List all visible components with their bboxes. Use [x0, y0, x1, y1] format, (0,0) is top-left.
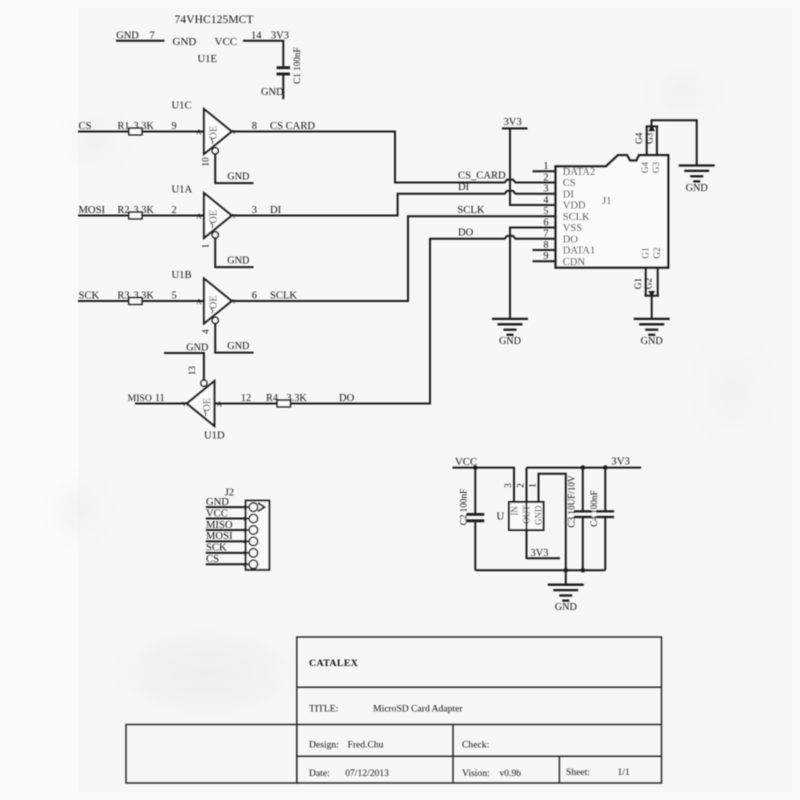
wire OE pin 1 to GND — [215, 238, 253, 267]
pin 5 of J2 (SCK) — [206, 543, 258, 558]
node SCK — [79, 290, 100, 301]
wire GND pin 7 — [116, 40, 165, 42]
svg-text:DO: DO — [563, 234, 579, 245]
pin 4 of J1 (VDD) — [543, 195, 586, 212]
ground (J1 bottom case) — [634, 319, 670, 347]
svg-text:DO: DO — [339, 393, 355, 404]
svg-text:3V3: 3V3 — [531, 548, 549, 559]
svg-text:G1: G1 — [641, 247, 651, 259]
svg-text:Check:: Check: — [462, 740, 489, 751]
pin 2 of J2 (VCC) — [206, 508, 258, 523]
svg-text:G3: G3 — [646, 132, 656, 144]
pin 11 (output U1D) — [155, 393, 165, 404]
pin 12 (input U1D) — [241, 393, 251, 404]
IC title 74VHC125MCT — [175, 14, 254, 26]
pin 9 (input U1C) — [172, 121, 177, 132]
junction VCC/C2 — [473, 465, 478, 470]
svg-text:CATALEX: CATALEX — [309, 658, 358, 669]
junction bus/C3 — [581, 568, 586, 573]
pin 6 (output U1B) — [252, 290, 257, 301]
svg-text:VCC: VCC — [215, 36, 238, 48]
svg-text:U1A: U1A — [172, 184, 193, 195]
title block date row — [309, 767, 630, 779]
wire MOSI input — [78, 215, 204, 217]
pin 9 of J1 (CDN) — [543, 251, 585, 268]
wire OE pin 4 to GND — [215, 324, 253, 353]
resistor R1 — [118, 121, 155, 135]
svg-text:DATA2: DATA2 — [563, 167, 595, 178]
svg-text:6: 6 — [252, 290, 257, 301]
pin 5 (input U1B) — [172, 290, 177, 301]
svg-text:Date:: Date: — [309, 768, 330, 779]
resistor R3 — [118, 290, 155, 304]
svg-text:GND: GND — [227, 256, 249, 267]
wire MISO output — [135, 403, 187, 405]
ground (VSS) — [492, 319, 528, 347]
svg-text:SCLK: SCLK — [563, 212, 590, 223]
net label GND (C1) — [261, 87, 284, 98]
svg-text:3: 3 — [504, 483, 514, 488]
junction rail/C3 — [581, 465, 586, 470]
svg-text:G3: G3 — [652, 161, 662, 173]
resistor R2 — [118, 205, 155, 219]
capacitor C1 100nF — [277, 47, 302, 84]
capacitor C4 100nF — [589, 468, 614, 571]
J2 pin 1 chevron — [258, 503, 265, 511]
svg-text:C3 10UF/10V: C3 10UF/10V — [567, 475, 577, 528]
pin 3 of J2 (MISO) — [206, 520, 258, 535]
title block frame — [126, 637, 662, 783]
buffer U1D — [182, 381, 225, 441]
svg-text:C4 100nF: C4 100nF — [589, 490, 599, 527]
svg-text:Fred.Chu: Fred.Chu — [348, 740, 384, 751]
title block design row — [309, 740, 489, 751]
net label 3V3 (pin 14) — [271, 30, 289, 41]
pin 6 of J2 (CS) — [206, 554, 258, 569]
svg-text:G2: G2 — [653, 247, 663, 259]
wire VCC pin 14 to C1 — [243, 41, 283, 66]
pin 1 of J2 (GND) — [206, 497, 258, 512]
wire 3V3 rail — [527, 467, 642, 469]
svg-text:DI: DI — [270, 205, 282, 216]
buffer U1C — [172, 100, 237, 154]
svg-text:R3: R3 — [118, 290, 130, 301]
pin 4 of J2 (MOSI) — [206, 531, 258, 546]
svg-text:CDN: CDN — [563, 257, 586, 268]
svg-text:U1D: U1D — [204, 431, 225, 442]
svg-text:G4: G4 — [635, 132, 645, 144]
svg-text:3V3: 3V3 — [504, 117, 522, 128]
OE bubble pin 13 of U1D — [188, 366, 207, 387]
svg-text:U1E: U1E — [198, 54, 217, 65]
J1 bottom case pins G1 G2 — [634, 268, 659, 298]
svg-text:VDD: VDD — [563, 201, 586, 212]
svg-text:9: 9 — [172, 121, 177, 132]
net label 3V3 (regulator out) — [531, 548, 549, 559]
svg-text:1: 1 — [528, 483, 538, 488]
wire G4/G3 to GND — [652, 120, 697, 165]
stub wire J1 pin 1 — [533, 170, 556, 172]
net label DI — [458, 182, 470, 193]
wire CS input — [78, 131, 204, 133]
svg-text:G1: G1 — [634, 277, 644, 289]
net label 3V3 (rail) — [611, 456, 630, 468]
OE bubble pin 10 of U1C — [202, 148, 219, 167]
node SCLK — [270, 290, 297, 301]
pin 8 of J1 (DATA1) — [543, 240, 595, 257]
pin 1 of J1 (DATA2) — [543, 161, 595, 178]
J1 top case pins G4 G3 — [635, 125, 658, 155]
pin 3 (output U1A) — [252, 205, 257, 216]
connector J2 label — [225, 487, 234, 498]
svg-text:GND: GND — [227, 172, 249, 183]
svg-text:14: 14 — [251, 30, 262, 41]
net label GND (pin 7) — [116, 30, 139, 41]
svg-text:GND: GND — [227, 341, 249, 352]
wire DO to J1 pin 7 — [290, 236, 555, 404]
wire ground bus — [475, 569, 605, 571]
svg-text:R1: R1 — [118, 121, 130, 132]
wire SCK input — [78, 300, 204, 302]
svg-text:CS: CS — [563, 178, 576, 189]
svg-text:DO: DO — [458, 227, 474, 238]
buffer U1A — [172, 184, 237, 238]
ground (regulator) — [548, 585, 584, 613]
svg-text:VSS: VSS — [563, 223, 582, 234]
capacitor C2 100nF — [458, 468, 484, 571]
connector J1 microSD socket body — [556, 155, 669, 267]
title block title row — [309, 704, 463, 715]
svg-text:07/12/2013: 07/12/2013 — [345, 768, 389, 779]
wire 3V3 to J1 pin 4 (VDD) — [510, 128, 556, 205]
J1 case pins G4 G3 labels inside — [641, 161, 662, 173]
svg-text:11: 11 — [155, 393, 165, 404]
svg-text:C2 100nF: C2 100nF — [458, 489, 468, 526]
svg-text:SCLK: SCLK — [270, 290, 297, 301]
power VCC — [455, 456, 477, 468]
svg-text:6: 6 — [543, 217, 548, 228]
svg-text:3V3: 3V3 — [271, 30, 289, 41]
wire OE pin 10 to GND — [215, 154, 253, 183]
svg-text:OE: OE — [209, 126, 220, 139]
svg-text:2: 2 — [243, 516, 246, 523]
U1E VCC pin name — [215, 36, 238, 48]
svg-text:TITLE:: TITLE: — [309, 704, 338, 715]
title block company CATALEX — [309, 658, 358, 669]
U1E label — [198, 54, 217, 65]
svg-text:GND: GND — [686, 183, 708, 194]
svg-text:5: 5 — [172, 290, 177, 301]
node MOSI — [79, 205, 106, 216]
svg-text:GND: GND — [186, 342, 208, 353]
svg-text:CS: CS — [79, 121, 92, 132]
svg-text:GND: GND — [555, 602, 577, 613]
svg-text:U1B: U1B — [172, 270, 192, 281]
net label CS_CARD — [458, 170, 506, 181]
pin 7 of U1E — [150, 30, 155, 41]
svg-text:SCK: SCK — [79, 290, 100, 301]
OE bubble pin 1 of U1A — [202, 232, 219, 249]
svg-text:R4: R4 — [266, 393, 278, 404]
pin 8 (output U1C) — [252, 121, 257, 132]
svg-text:Design:: Design: — [309, 740, 339, 751]
svg-text:4: 4 — [543, 195, 548, 206]
net label GND (U1B OE) — [227, 341, 249, 352]
node CS — [79, 121, 92, 132]
svg-text:GND: GND — [116, 30, 139, 41]
svg-text:7: 7 — [150, 30, 155, 41]
svg-text:8: 8 — [252, 121, 257, 132]
wire C1 to GND — [282, 75, 284, 99]
stub wire J1 pin 9 — [533, 260, 556, 262]
svg-text:MicroSD Card Adapter: MicroSD Card Adapter — [373, 704, 463, 715]
svg-text:MISO: MISO — [128, 393, 152, 404]
svg-text:13: 13 — [188, 366, 198, 376]
svg-text:CS_CARD: CS_CARD — [458, 170, 506, 181]
svg-text:GND: GND — [641, 336, 663, 347]
svg-text:MOSI: MOSI — [79, 205, 106, 216]
wire OE pin 13 to GND — [164, 353, 204, 380]
wire J1 pin 6 (VSS) to GND — [510, 228, 556, 319]
svg-text:2: 2 — [516, 483, 526, 488]
ground (J1 top case) — [679, 166, 715, 194]
svg-text:v0.9b: v0.9b — [500, 768, 522, 779]
wire SCLK to J1 pin 5 — [232, 216, 556, 301]
pin 14 of U1E — [251, 30, 262, 41]
svg-text:R2: R2 — [118, 205, 130, 216]
wire regulator OUT (pin 2) to 3V3 — [527, 468, 561, 559]
svg-text:GND: GND — [173, 36, 197, 48]
pin 2 (input U1A) — [172, 205, 177, 216]
buffer U1B — [172, 270, 237, 324]
svg-text:3: 3 — [543, 184, 548, 195]
svg-text:OE: OE — [209, 296, 220, 309]
junction bus/regulator gnd — [564, 568, 569, 573]
U1E GND pin name — [173, 36, 197, 48]
regulator U (3V3 LDO) — [497, 483, 544, 530]
stub wire J1 pin 8 — [533, 249, 556, 251]
svg-text:OE: OE — [202, 398, 213, 411]
svg-text:7: 7 — [543, 229, 548, 240]
svg-text:GND: GND — [499, 336, 521, 347]
svg-text:SCLK: SCLK — [457, 205, 484, 216]
node MISO — [128, 393, 152, 404]
svg-text:J1: J1 — [602, 196, 611, 207]
svg-text:DATA1: DATA1 — [563, 246, 595, 257]
svg-text:1/1: 1/1 — [618, 767, 630, 778]
wire VCC rail — [453, 468, 515, 502]
wire DI to J1 pin 3 — [232, 191, 556, 216]
wire ground stem — [565, 570, 567, 584]
svg-text:IN: IN — [510, 506, 520, 516]
wire regulator GND (pin 1) to ground — [539, 474, 566, 571]
resistor R4 — [266, 393, 307, 407]
svg-text:A: A — [196, 297, 202, 306]
svg-text:GND: GND — [261, 87, 284, 98]
svg-text:DI: DI — [563, 189, 575, 200]
pin 7 of J1 (DO) — [543, 229, 578, 246]
power 3V3 (J1) — [502, 117, 528, 128]
svg-text:10: 10 — [202, 157, 212, 167]
svg-text:A: A — [196, 212, 202, 221]
svg-text:2: 2 — [172, 205, 177, 216]
svg-text:DI: DI — [458, 182, 470, 193]
svg-text:12: 12 — [241, 393, 251, 404]
pin 3 of J1 (DI) — [543, 184, 574, 201]
OE bubble pin 4 of U1B — [202, 317, 219, 334]
svg-text:1: 1 — [202, 243, 212, 248]
svg-text:U: U — [497, 512, 505, 523]
wire CS CARD to J1 pin 2 — [232, 132, 556, 183]
pin 5 of J1 (SCLK) — [543, 206, 590, 223]
J1 case pins G1 G2 labels inside — [641, 247, 663, 259]
svg-text:GND: GND — [534, 505, 544, 525]
pin 2 of J1 (CS) — [543, 172, 575, 189]
svg-text:Y: Y — [182, 401, 187, 408]
svg-text:OE: OE — [209, 210, 220, 223]
node CS CARD — [270, 121, 315, 132]
svg-text:1: 1 — [243, 505, 246, 512]
svg-text:Vision:: Vision: — [462, 768, 490, 779]
connector J2 body — [246, 501, 270, 570]
svg-text:2: 2 — [543, 172, 548, 183]
net label GND (U1C OE) — [227, 172, 249, 183]
svg-text:A: A — [196, 128, 202, 137]
node DI — [270, 205, 282, 216]
svg-text:CS CARD: CS CARD — [270, 121, 315, 132]
svg-text:C1 100nF: C1 100nF — [292, 47, 302, 84]
svg-text:G4: G4 — [641, 161, 651, 173]
svg-text:74VHC125MCT: 74VHC125MCT — [175, 14, 254, 26]
svg-text:Sheet:: Sheet: — [566, 767, 590, 778]
net label GND (U1D OE) — [186, 342, 208, 353]
capacitor C3 10UF/10V — [567, 468, 592, 571]
pin 6 of J1 (VSS) — [543, 217, 582, 234]
junction rail/C4 — [603, 465, 608, 470]
svg-text:3: 3 — [252, 205, 257, 216]
svg-text:4: 4 — [202, 329, 212, 334]
node DO — [339, 393, 355, 404]
wire U1D input — [214, 403, 277, 405]
svg-text:G2: G2 — [645, 277, 655, 289]
svg-text:U1C: U1C — [172, 100, 192, 111]
net label SCLK — [457, 205, 484, 216]
svg-text:3V3: 3V3 — [611, 456, 630, 468]
net label GND (U1A OE) — [227, 256, 249, 267]
net label DO — [458, 227, 474, 238]
wire G1/G2 to GND — [651, 296, 653, 319]
svg-text:5: 5 — [543, 206, 548, 217]
